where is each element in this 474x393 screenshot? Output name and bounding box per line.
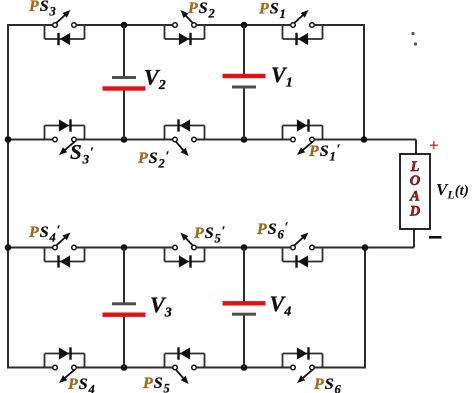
node: rail1-V1 junction	[241, 22, 248, 29]
switch PS2 bypass diode box	[165, 25, 205, 45]
svg-text:PS2′: PS2′	[137, 148, 170, 171]
node: rail4-V4 junction	[241, 364, 248, 371]
node: rail2-V1 junction	[241, 136, 248, 143]
svg-text:V2: V2	[144, 65, 166, 94]
svg-text:O: O	[410, 173, 421, 189]
wire: load - stem	[413, 228, 415, 248]
wire: load + stem	[415, 140, 417, 156]
svg-text:PS1: PS1	[258, 1, 287, 22]
battery V2	[103, 76, 146, 91]
wire: rail 2 segments (with extension to load +)	[8, 139, 416, 141]
wire: left bus vertical	[7, 24, 9, 369]
switch PS5' bypass diode box	[165, 248, 205, 268]
svg-text:+: +	[429, 136, 439, 155]
wire: V2 stem	[123, 25, 125, 140]
switch PS5 contacts and blade	[173, 365, 197, 384]
svg-text:V3: V3	[150, 292, 172, 321]
node: rail3-V4 junction	[241, 244, 248, 251]
switch PS2' bypass diode box	[165, 119, 205, 139]
node: rail3-V3 junction	[121, 244, 128, 251]
battery V3	[103, 302, 146, 317]
switch PS6 contacts and blade	[291, 365, 315, 383]
wire: top rail (rail 1) segments	[8, 24, 364, 26]
svg-text:PS3: PS3	[28, 0, 57, 19]
battery V1	[223, 74, 266, 89]
svg-text:S3′: S3′	[70, 140, 95, 167]
wire: V1 stem	[243, 25, 245, 140]
wire: V4 stem	[243, 248, 245, 368]
switch PS4' contacts and blade	[53, 233, 77, 250]
switch PS1' contacts and blade	[291, 137, 315, 155]
switch PS1' bypass diode box	[283, 119, 323, 139]
switch PS2 contacts and blade	[173, 10, 197, 27]
ellipsis dots (more cells indicator)	[411, 32, 417, 46]
switch PS1 bypass diode box	[283, 25, 323, 45]
svg-text:PS2: PS2	[187, 0, 216, 21]
switch PS3 bypass diode box	[45, 25, 85, 45]
switch PS6' contacts and blade	[291, 233, 315, 250]
wire: right vertical of top bridge	[363, 24, 365, 140]
svg-text:PS6′: PS6′	[256, 219, 289, 242]
switch PS5' contacts and blade	[173, 233, 197, 250]
svg-text:A: A	[409, 189, 420, 205]
switch PS4' bypass diode box	[45, 248, 85, 268]
svg-text:D: D	[409, 204, 421, 220]
svg-text:V1: V1	[271, 62, 293, 91]
node: rail3 left junction	[5, 244, 12, 251]
wire: V3 stem	[123, 248, 125, 368]
switch S3' bypass diode box	[45, 119, 85, 139]
node: rail2 right junction	[361, 136, 368, 143]
node: rail2-V2 junction	[121, 136, 128, 143]
load - terminal	[429, 236, 442, 239]
load box	[400, 154, 430, 229]
wire: right vertical of bottom bridge	[364, 248, 366, 369]
svg-text:PS4: PS4	[67, 376, 96, 393]
switch PS3 contacts and blade	[53, 10, 77, 27]
switch PS4 contacts and blade	[53, 365, 77, 383]
node: rail2 left junction	[5, 136, 12, 143]
load text L-O-A-D	[409, 159, 421, 220]
svg-text:V4: V4	[270, 291, 292, 320]
switch PS6 bypass diode box	[283, 347, 323, 367]
node: rail4-V3 junction	[121, 364, 128, 371]
switch PS6' bypass diode box	[283, 248, 323, 268]
switch PS1 contacts and blade	[291, 10, 315, 27]
svg-text:PS4′: PS4′	[28, 222, 61, 245]
svg-text:PS5: PS5	[142, 375, 171, 393]
svg-text:PS1′: PS1′	[308, 141, 341, 164]
node: rail1-V2 junction	[121, 22, 128, 29]
node: rail3 right junction	[362, 244, 369, 251]
switch PS5 bypass diode box	[165, 347, 205, 367]
wire: bottom rail (rail 4) segments	[8, 367, 365, 369]
battery V4	[223, 301, 266, 316]
switch PS4 bypass diode box	[45, 347, 85, 367]
wire: rail 3 segments (with extension to load -)	[8, 247, 414, 249]
svg-text:PS5′: PS5′	[193, 223, 226, 246]
svg-text:VL(t): VL(t)	[436, 180, 469, 202]
switch S3' contacts and blade	[53, 137, 77, 155]
switch PS2' contacts and blade	[173, 137, 197, 156]
svg-text:PS6: PS6	[313, 376, 342, 393]
